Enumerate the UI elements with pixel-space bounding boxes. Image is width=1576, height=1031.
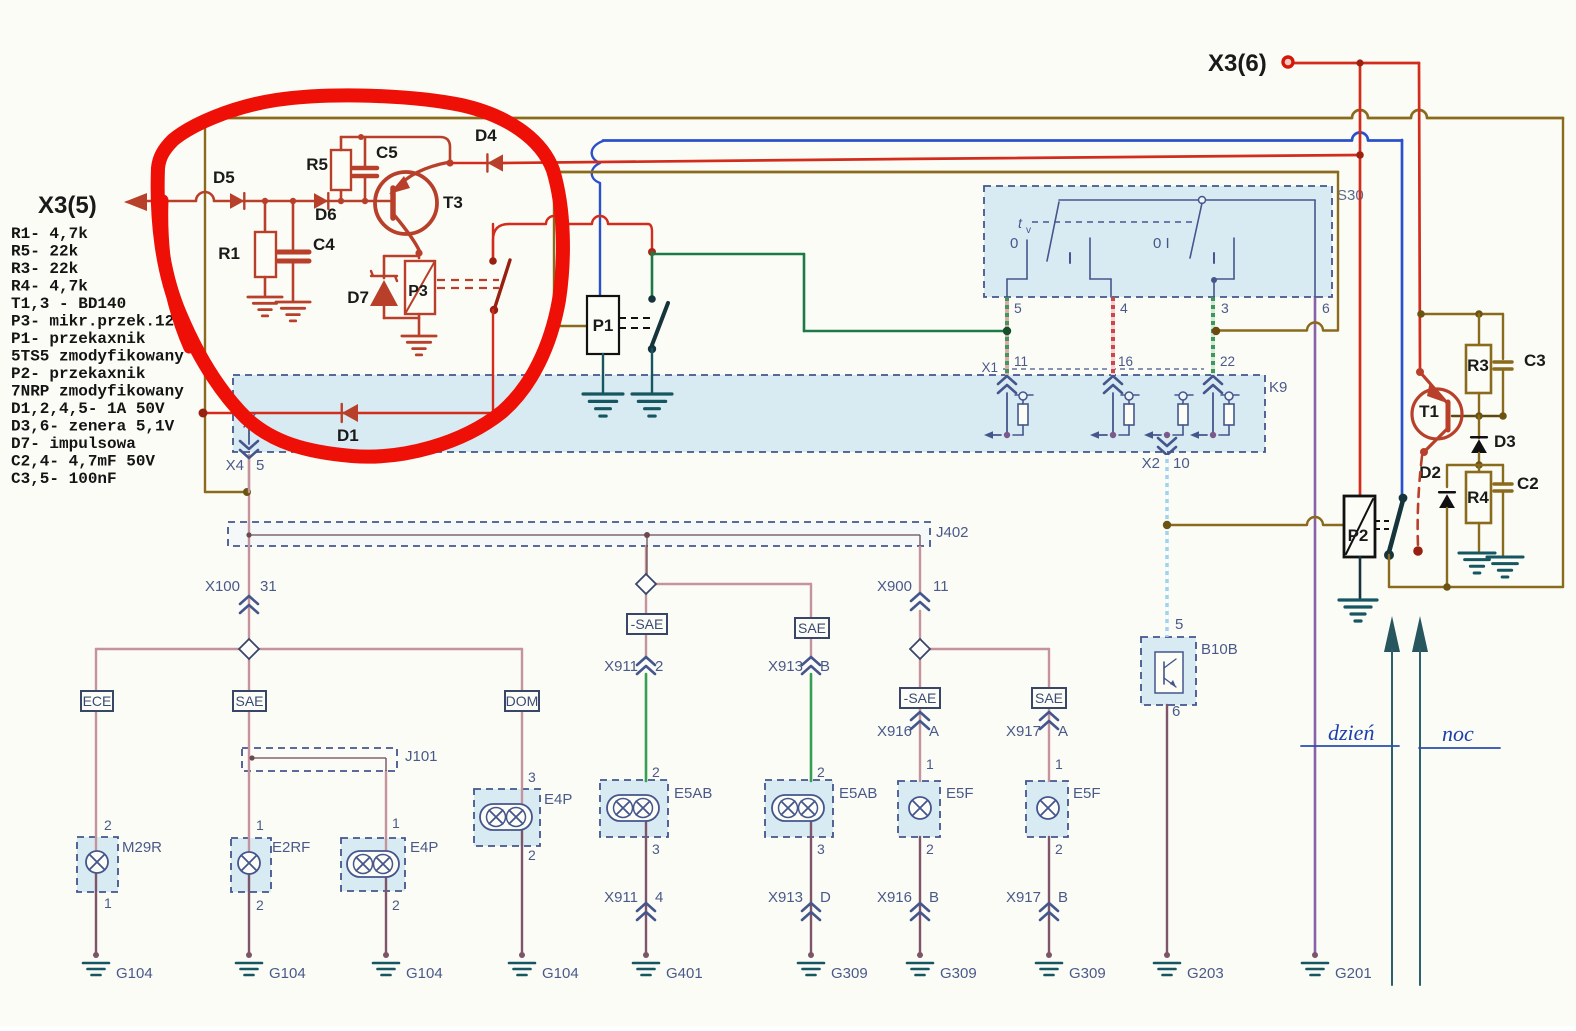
svg-text:2: 2 [926, 841, 934, 857]
svg-text:C5: C5 [376, 143, 398, 162]
svg-text:G104: G104 [116, 965, 153, 982]
svg-text:D5: D5 [213, 168, 235, 187]
svg-text:E4P: E4P [410, 839, 438, 856]
svg-text:B10B: B10B [1201, 641, 1238, 658]
svg-text:R1- 4,7k: R1- 4,7k [11, 225, 88, 243]
svg-text:T3: T3 [443, 193, 463, 212]
svg-text:E5F: E5F [1073, 785, 1101, 802]
svg-text:dzień: dzień [1328, 720, 1374, 745]
svg-text:P1: P1 [593, 316, 614, 335]
svg-text:C2: C2 [1517, 474, 1539, 493]
svg-text:D2: D2 [1419, 463, 1441, 482]
svg-text:4: 4 [1120, 300, 1128, 316]
svg-text:D: D [820, 889, 831, 906]
svg-text:5: 5 [1175, 616, 1183, 633]
svg-text:R5- 22k: R5- 22k [11, 243, 79, 261]
svg-text:1: 1 [1055, 756, 1063, 772]
svg-text:E5F: E5F [946, 785, 974, 802]
svg-text:A: A [929, 723, 939, 740]
svg-text:R3- 22k: R3- 22k [11, 260, 79, 278]
svg-text:D1,2,4,5- 1A 50V: D1,2,4,5- 1A 50V [11, 400, 165, 418]
svg-text:D7: D7 [347, 288, 369, 307]
svg-text:P2: P2 [1348, 526, 1369, 545]
svg-text:X2: X2 [1142, 455, 1160, 472]
svg-text:3: 3 [817, 841, 825, 857]
svg-text:22: 22 [1220, 354, 1235, 369]
svg-text:E5AB: E5AB [674, 785, 712, 802]
svg-text:X3(5): X3(5) [38, 192, 97, 219]
svg-text:B: B [1058, 889, 1068, 906]
svg-text:0 I: 0 I [1153, 235, 1170, 252]
svg-text:G309: G309 [831, 965, 868, 982]
svg-text:E4P: E4P [544, 791, 572, 808]
svg-text:G104: G104 [406, 965, 443, 982]
svg-text:G203: G203 [1187, 965, 1224, 982]
svg-text:X916: X916 [877, 889, 912, 906]
svg-text:G104: G104 [269, 965, 306, 982]
svg-text:G309: G309 [940, 965, 977, 982]
svg-text:2: 2 [392, 897, 400, 913]
svg-text:R1: R1 [218, 244, 240, 263]
svg-text:3: 3 [528, 769, 536, 785]
svg-text:T1: T1 [1419, 402, 1439, 421]
svg-text:1: 1 [926, 756, 934, 772]
svg-text:M29R: M29R [122, 839, 162, 856]
svg-text:31: 31 [260, 578, 277, 595]
svg-text:5: 5 [1014, 300, 1022, 316]
svg-text:D1: D1 [337, 426, 359, 445]
svg-text:SAE: SAE [1035, 690, 1063, 706]
svg-text:D4: D4 [475, 126, 497, 145]
svg-text:11: 11 [933, 578, 949, 595]
svg-text:1: 1 [104, 895, 112, 911]
svg-text:E5AB: E5AB [839, 785, 877, 802]
svg-text:X911: X911 [604, 889, 638, 906]
svg-text:5TS5 zmodyfikowany: 5TS5 zmodyfikowany [11, 348, 184, 366]
svg-text:DOM: DOM [506, 693, 539, 709]
svg-text:6: 6 [1172, 703, 1180, 720]
svg-text:noc: noc [1442, 721, 1474, 746]
svg-text:J402: J402 [936, 524, 969, 541]
svg-text:R4: R4 [1467, 488, 1489, 507]
svg-text:X913: X913 [768, 658, 803, 675]
svg-text:R4- 4,7k: R4- 4,7k [11, 278, 88, 296]
svg-text:-SAE: -SAE [904, 690, 937, 706]
svg-text:1: 1 [256, 817, 264, 833]
svg-text:D7- impulsowa: D7- impulsowa [11, 435, 136, 453]
svg-text:v: v [1026, 225, 1031, 236]
svg-text:K9: K9 [1269, 379, 1287, 396]
svg-text:3: 3 [652, 841, 660, 857]
svg-text:2: 2 [1055, 841, 1063, 857]
svg-text:2: 2 [817, 764, 825, 780]
svg-text:R5: R5 [306, 155, 328, 174]
svg-text:X911: X911 [604, 658, 638, 675]
svg-text:E2RF: E2RF [272, 839, 310, 856]
svg-text:X3(6): X3(6) [1208, 50, 1267, 77]
svg-text:X1: X1 [981, 360, 998, 375]
svg-text:X100: X100 [205, 578, 240, 595]
svg-text:2: 2 [104, 817, 112, 833]
svg-text:G104: G104 [542, 965, 579, 982]
svg-text:B: B [820, 658, 830, 675]
svg-text:SAE: SAE [798, 620, 826, 636]
svg-text:C3: C3 [1524, 351, 1546, 370]
svg-text:T1,3 - BD140: T1,3 - BD140 [11, 295, 126, 313]
svg-text:G201: G201 [1335, 965, 1372, 982]
svg-text:D3: D3 [1494, 432, 1516, 451]
svg-text:C3,5- 100nF: C3,5- 100nF [11, 470, 117, 488]
svg-text:1: 1 [392, 815, 400, 831]
svg-text:J101: J101 [405, 748, 438, 765]
svg-text:D3,6- zenera 5,1V: D3,6- zenera 5,1V [11, 418, 175, 436]
svg-text:C2,4- 4,7mF 50V: C2,4- 4,7mF 50V [11, 453, 155, 471]
svg-text:X4: X4 [226, 457, 244, 474]
svg-text:SAE: SAE [235, 693, 263, 709]
svg-text:X917: X917 [1006, 723, 1041, 740]
svg-text:X917: X917 [1006, 889, 1041, 906]
svg-text:P1- przekaxnik: P1- przekaxnik [11, 330, 146, 348]
svg-text:A: A [1058, 723, 1068, 740]
svg-text:B: B [929, 889, 939, 906]
svg-text:2: 2 [652, 764, 660, 780]
svg-text:6: 6 [1322, 300, 1330, 316]
svg-text:X900: X900 [877, 578, 912, 595]
svg-text:G309: G309 [1069, 965, 1106, 982]
svg-text:X916: X916 [877, 723, 912, 740]
svg-text:2: 2 [655, 658, 663, 675]
svg-text:X913: X913 [768, 889, 803, 906]
svg-text:-SAE: -SAE [631, 616, 664, 632]
svg-text:5: 5 [256, 457, 264, 474]
svg-text:3: 3 [1221, 300, 1229, 316]
svg-text:D6: D6 [315, 205, 337, 224]
svg-text:0: 0 [1010, 235, 1018, 252]
svg-text:P3- mikr.przek.12V: P3- mikr.przek.12V [11, 313, 184, 331]
svg-text:7NRP zmodyfikowany: 7NRP zmodyfikowany [11, 383, 184, 401]
svg-text:P3: P3 [408, 283, 428, 300]
svg-text:2: 2 [256, 897, 264, 913]
svg-text:ECE: ECE [83, 693, 112, 709]
svg-text:C4: C4 [313, 235, 335, 254]
svg-text:G401: G401 [666, 965, 703, 982]
svg-text:4: 4 [655, 889, 663, 906]
svg-text:P2- przekaxnik: P2- przekaxnik [11, 365, 146, 383]
svg-text:R3: R3 [1467, 356, 1489, 375]
svg-text:16: 16 [1118, 354, 1133, 369]
svg-text:10: 10 [1173, 455, 1190, 472]
svg-text:11: 11 [1014, 354, 1028, 369]
svg-text:2: 2 [528, 847, 536, 863]
